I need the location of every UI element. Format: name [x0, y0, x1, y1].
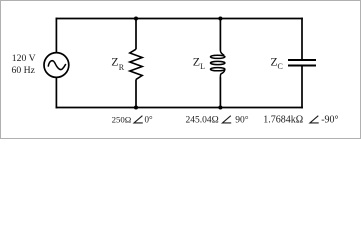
svg-text:C: C — [278, 62, 283, 71]
wire inductor branch top lead — [219, 18, 221, 51]
resistor ZR — [130, 49, 142, 79]
svg-text:-90°: -90° — [321, 115, 338, 126]
wire left branch above source — [55, 18, 57, 53]
node junction dot bottom-resistor — [134, 105, 138, 109]
svg-text:90°: 90° — [235, 115, 249, 126]
svg-text:250Ω: 250Ω — [112, 115, 132, 125]
svg-text:1.7684kΩ: 1.7684kΩ — [263, 115, 303, 126]
capacitor ZC plates — [288, 59, 316, 61]
wire inductor branch bottom lead — [219, 77, 221, 108]
wire bottom bus — [56, 107, 303, 109]
wire capacitor branch bottom lead — [301, 66, 303, 108]
wire resistor branch bottom lead — [135, 79, 137, 108]
svg-text:Z: Z — [111, 55, 118, 69]
inductor ZL coil — [211, 51, 225, 78]
svg-text:245.04Ω: 245.04Ω — [186, 116, 219, 126]
AC source 120V 60Hz — [44, 53, 69, 78]
node junction dot top-resistor — [134, 16, 138, 20]
wire top bus — [56, 18, 303, 20]
node junction dot bottom-inductor — [218, 105, 222, 109]
wire left branch below source — [55, 77, 57, 108]
wire resistor branch top lead — [135, 18, 137, 50]
svg-text:R: R — [119, 63, 125, 72]
svg-text:120 V: 120 V — [12, 53, 36, 64]
svg-text:0°: 0° — [145, 115, 154, 125]
svg-text:Z: Z — [193, 54, 200, 68]
node junction dot top-inductor — [218, 16, 222, 20]
svg-text:L: L — [200, 62, 205, 71]
svg-text:60 Hz: 60 Hz — [12, 65, 36, 76]
wire capacitor branch top lead — [301, 18, 303, 60]
